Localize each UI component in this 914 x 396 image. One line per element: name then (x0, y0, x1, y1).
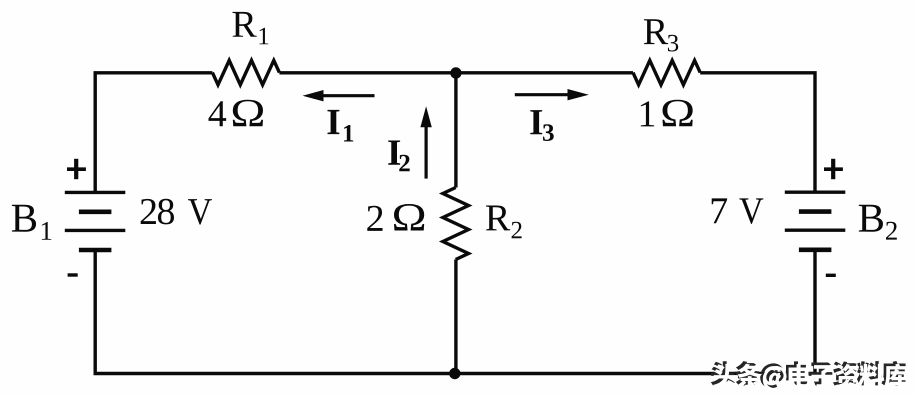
battery B1 second long plate (65, 229, 126, 232)
label R2 (486, 206, 522, 239)
wire bottom rail (94, 372, 817, 375)
battery B1 positive long plate (65, 191, 126, 194)
label I3 (530, 110, 553, 141)
label 7 V (712, 198, 764, 223)
wire node A to R3 (456, 71, 633, 74)
watermark text white shadow copy on top (713, 364, 908, 391)
wire R2 down to bottom node B (454, 260, 457, 374)
label B2 (859, 205, 897, 240)
label R1 (233, 12, 269, 44)
wire B1 plus terminal up and across to R1 (95, 73, 212, 193)
B1 plus polarity sign (67, 159, 86, 179)
current arrow I3 pointing right (515, 89, 589, 100)
resistor R1 (212, 60, 279, 84)
B2 minus polarity sign (826, 274, 836, 277)
resistor R2 (443, 188, 469, 260)
resistor R3 (633, 60, 700, 84)
battery B2 positive long plate (785, 190, 846, 193)
wire B1 minus terminal down (93, 250, 96, 374)
label I2 (388, 140, 409, 171)
label 1 ohm (641, 100, 693, 127)
battery B2 second long plate (785, 228, 846, 231)
label R3 (644, 19, 678, 51)
label I1 (327, 110, 353, 142)
B2 plus polarity sign (824, 159, 843, 179)
wire R1 to node A (279, 71, 456, 74)
wire R3 across and down to B2 plus terminal (700, 73, 815, 192)
watermark text dark copy (711, 361, 906, 388)
wire B2 minus terminal down (813, 250, 816, 374)
label 2 ohm (367, 204, 424, 231)
current arrow I2 pointing up (420, 106, 431, 178)
wire node A down to R2 (454, 73, 457, 188)
battery B1 inner short plate (79, 210, 112, 215)
label 28 V (141, 199, 212, 225)
B1 minus polarity sign (68, 273, 78, 276)
label B1 (12, 205, 51, 240)
label 4 ohm (209, 100, 263, 127)
battery B1 negative short plate (79, 248, 112, 253)
battery B2 negative short plate (799, 248, 832, 253)
current arrow I1 pointing left (303, 90, 375, 101)
node B bottom junction dot (449, 368, 460, 379)
battery B2 inner short plate (799, 209, 832, 214)
node A top junction dot (450, 67, 461, 78)
